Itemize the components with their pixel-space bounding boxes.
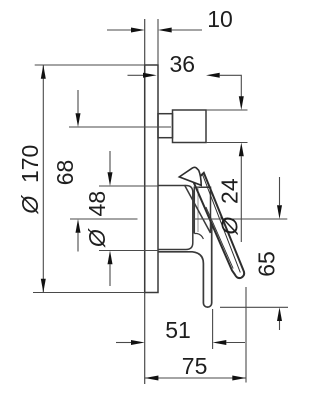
dim 65 arrow bottom	[277, 307, 282, 321]
dim D24 tail bottom	[240, 156, 242, 242]
dim D170 arrow top	[41, 65, 46, 79]
blade inner edge	[203, 175, 241, 273]
handle rosette	[158, 186, 193, 250]
dim 65 line bottom	[279, 321, 281, 330]
handle collar	[194, 187, 210, 233]
svg-text:75: 75	[182, 353, 208, 379]
svg-text:Ø 24: Ø 24	[217, 178, 243, 235]
dim D48 line bottom	[109, 264, 111, 286]
dim 51 line left	[116, 342, 131, 344]
dim 65 arrow top	[277, 205, 282, 219]
plate face extension line	[157, 19, 159, 65]
dim D170 top extension	[35, 64, 145, 66]
collar bottom transition	[194, 234, 203, 240]
dim 68 line bottom	[77, 233, 79, 252]
svg-text:68: 68	[52, 160, 78, 186]
dim D48 arrow bottom	[108, 251, 113, 265]
knob body	[173, 110, 207, 143]
wall plate	[145, 65, 158, 293]
svg-text:65: 65	[254, 251, 280, 277]
dim 75 arrow left	[145, 376, 159, 381]
dim 65 bottom extension	[220, 306, 288, 308]
dim D170 line	[42, 65, 44, 293]
dim 65 line top	[279, 177, 281, 205]
dim 51 arrow right	[213, 340, 227, 345]
svg-text:10: 10	[207, 6, 233, 32]
svg-text:Ø 48: Ø 48	[84, 191, 110, 248]
svg-text:36: 36	[170, 51, 196, 77]
dim D48 arrow top	[108, 172, 113, 186]
dim D48 bottom extension	[99, 250, 158, 252]
collar inner line	[197, 187, 199, 232]
dim 36 line right with corner to knob	[220, 75, 242, 96]
dim 51 line right	[226, 342, 245, 344]
dim 10 line right	[172, 29, 202, 31]
dim 75 extension right	[245, 287, 247, 383]
lever blade	[194, 173, 244, 278]
dim 68 arrow top	[76, 113, 81, 127]
dim 68 line top	[77, 90, 79, 113]
valve neck	[158, 114, 173, 138]
dim 36 arrow right	[206, 73, 220, 78]
dim D24 arrow top	[239, 96, 244, 110]
svg-text:Ø 170: Ø 170	[17, 145, 43, 215]
dim D24 top extension	[206, 109, 248, 111]
dim D48 top extension	[99, 185, 158, 187]
dim 36 arrow left	[143, 73, 157, 78]
blade lower inner edge	[206, 207, 233, 269]
dim D170 arrow bottom	[41, 279, 46, 293]
dim 10 arrow right	[158, 28, 172, 33]
dim 10 line left	[107, 29, 131, 31]
dim D48 line top	[109, 151, 111, 172]
dim 75 arrow right	[232, 376, 246, 381]
dim D170 bottom extension	[33, 292, 145, 294]
svg-text:51: 51	[165, 317, 191, 343]
lever blade cap	[179, 167, 201, 185]
dim 51 extension right	[212, 309, 214, 349]
dim 36 line left	[128, 74, 144, 76]
dim D24 bottom extension	[206, 142, 248, 144]
lever lower arm	[158, 225, 212, 307]
centerline handle axis right	[193, 218, 287, 220]
wall	[144, 19, 146, 384]
blade back edge	[185, 185, 211, 233]
dim D24 arrow bottom	[239, 143, 244, 157]
dim 51 arrow left	[131, 340, 145, 345]
centerline valve axis	[69, 126, 171, 128]
dim 10 arrow left	[131, 28, 145, 33]
dim 75 line	[145, 377, 246, 379]
centerline handle axis left	[70, 218, 138, 220]
dim 68 arrow bottom	[76, 219, 81, 233]
